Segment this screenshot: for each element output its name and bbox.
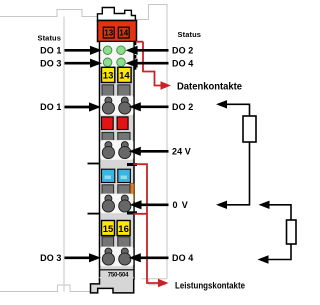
svg-text:Datenkontakte: Datenkontakte <box>177 82 242 93</box>
svg-text:24 V: 24 V <box>172 147 191 157</box>
svg-text:16: 16 <box>118 224 129 235</box>
svg-text:DO 4: DO 4 <box>172 58 193 68</box>
svg-text:DO 2: DO 2 <box>172 102 193 112</box>
svg-text:14: 14 <box>119 28 128 37</box>
svg-text:DO 1: DO 1 <box>40 46 61 56</box>
svg-text:Leistungskontakte: Leistungskontakte <box>175 280 245 291</box>
svg-text:DO 1: DO 1 <box>40 102 61 112</box>
svg-text:0 V: 0 V <box>173 200 189 210</box>
svg-text:DO 3: DO 3 <box>40 58 61 68</box>
svg-text:Status: Status <box>37 34 61 43</box>
svg-text:DO 2: DO 2 <box>172 46 193 56</box>
svg-text:15: 15 <box>103 224 114 235</box>
svg-text:13: 13 <box>103 71 114 82</box>
svg-text:14: 14 <box>119 71 130 82</box>
svg-text:13: 13 <box>104 28 113 37</box>
svg-text:DO 3: DO 3 <box>40 253 61 263</box>
svg-text:DO 4: DO 4 <box>172 253 193 263</box>
svg-text:Status: Status <box>178 30 202 39</box>
svg-text:750-504: 750-504 <box>108 273 129 279</box>
